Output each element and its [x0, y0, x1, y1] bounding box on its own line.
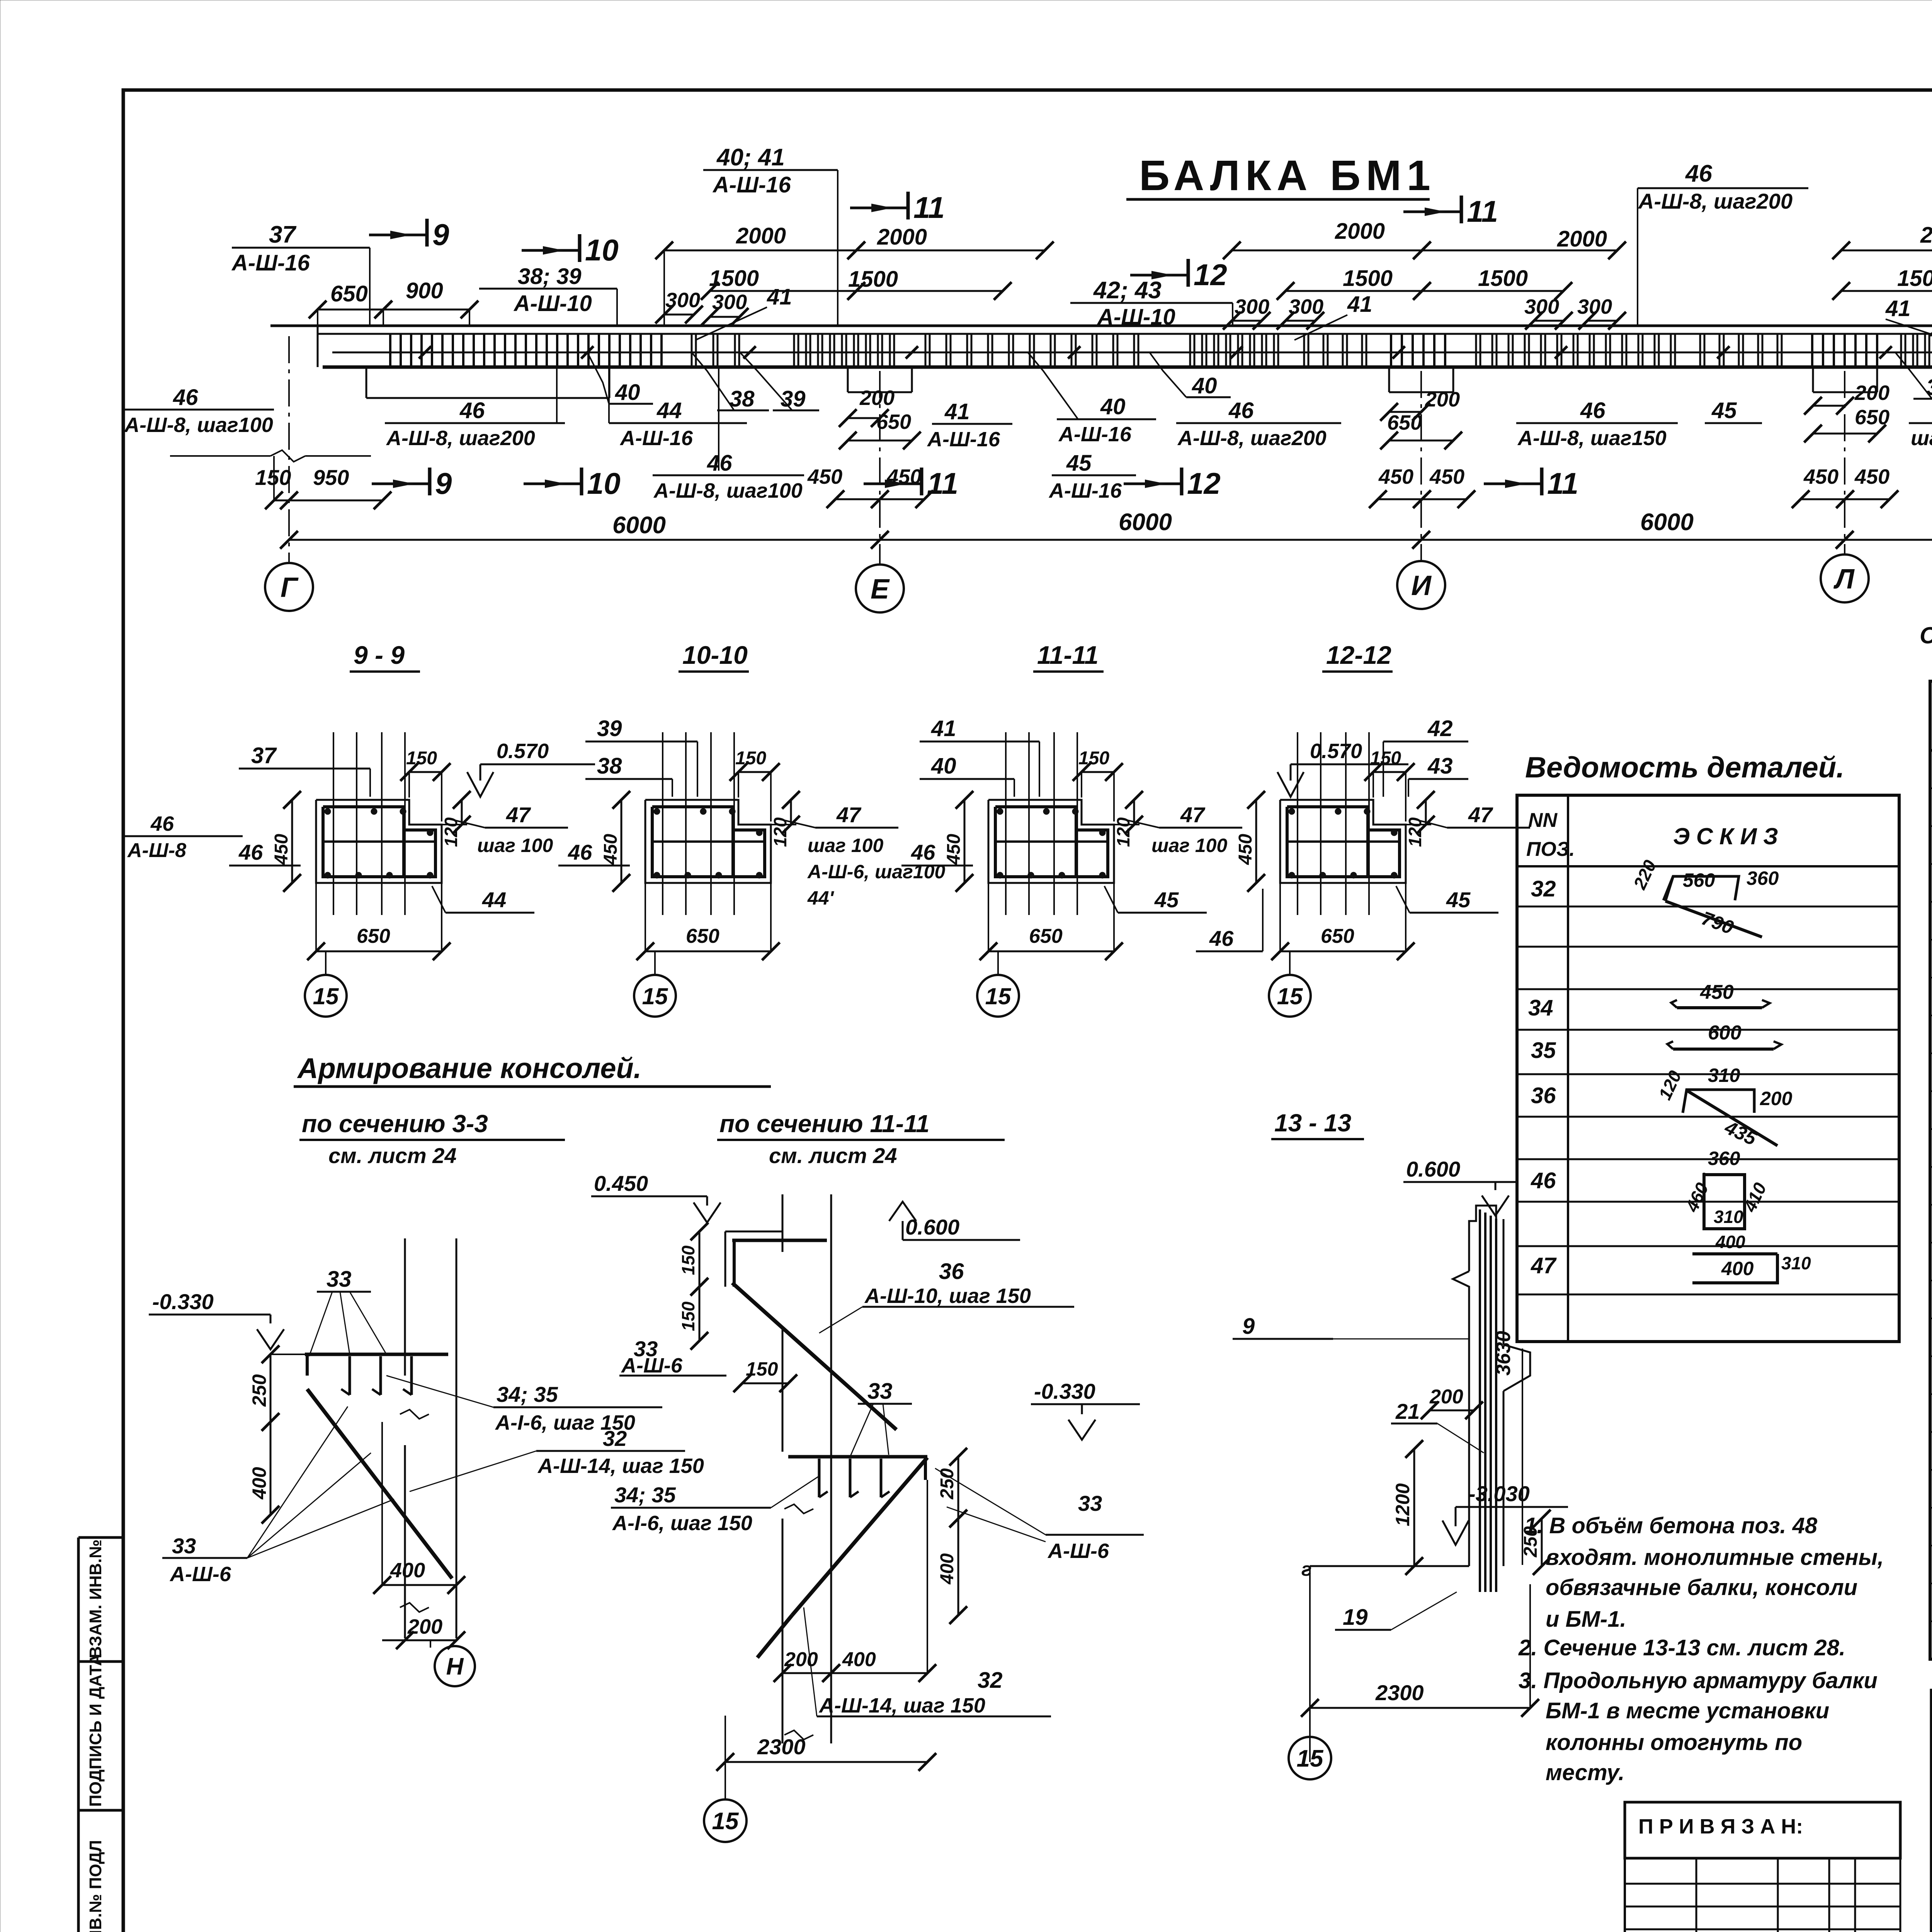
- svg-text:А-Ш-14, шаг 150: А-Ш-14, шаг 150: [818, 1694, 985, 1717]
- svg-text:1500: 1500: [1478, 266, 1528, 291]
- detail 13-13 dim 2300: [1310, 1707, 1530, 1709]
- svg-text:12: 12: [1194, 258, 1227, 292]
- svg-text:400: 400: [1715, 1232, 1745, 1252]
- svg-text:300: 300: [1289, 295, 1323, 318]
- svg-text:41: 41: [767, 284, 792, 310]
- svg-text:Н: Н: [446, 1653, 464, 1680]
- svg-text:Е: Е: [871, 574, 890, 605]
- svg-text:А-Ш-8, шаг200: А-Ш-8, шаг200: [1638, 189, 1793, 213]
- svg-text:150: 150: [406, 748, 437, 769]
- svg-text:47: 47: [836, 803, 862, 827]
- detail 11-11 upper diagonal bar: [732, 1283, 896, 1430]
- svg-text:46: 46: [1685, 160, 1712, 187]
- svg-text:колонны отогнуть по: колонны отогнуть по: [1546, 1730, 1802, 1755]
- svg-text:по сечению 3-3: по сечению 3-3: [302, 1110, 488, 1138]
- svg-text:150: 150: [678, 1245, 698, 1275]
- svg-text:41: 41: [1885, 296, 1911, 321]
- svg-text:650: 650: [357, 925, 390, 947]
- svg-text:19: 19: [1343, 1605, 1368, 1630]
- svg-text:1200: 1200: [1392, 1483, 1413, 1526]
- detail 3-3 axis circle N: [430, 1640, 431, 1648]
- section 12-12 wall bars passing through: [1297, 732, 1298, 915]
- svg-text:-3.030: -3.030: [1468, 1481, 1530, 1506]
- svg-text:А-Ш-6: А-Ш-6: [169, 1563, 231, 1586]
- beam left end edge: [317, 326, 319, 367]
- svg-text:450: 450: [600, 834, 621, 865]
- svg-text:46: 46: [568, 840, 592, 864]
- svg-text:46: 46: [707, 451, 732, 476]
- svg-text:10-10: 10-10: [682, 641, 748, 669]
- svg-text:400: 400: [1721, 1258, 1754, 1279]
- svg-text:2300: 2300: [757, 1735, 806, 1759]
- svg-text:А-Ш-16: А-Ш-16: [619, 427, 693, 450]
- svg-text:11-11: 11-11: [1037, 641, 1099, 669]
- svg-text:и БМ-1.: и БМ-1.: [1546, 1607, 1626, 1632]
- svg-text:46: 46: [459, 398, 485, 423]
- svg-text:200: 200: [1425, 388, 1460, 411]
- svg-text:6000: 6000: [1119, 509, 1172, 536]
- svg-text:А-Ш-6: А-Ш-6: [621, 1354, 683, 1377]
- svg-text:шаг 100: шаг 100: [477, 835, 553, 856]
- detail 3-3 dim 400 bottom: [382, 1584, 456, 1586]
- svg-text:47: 47: [1180, 803, 1206, 827]
- spec table frame: [1930, 681, 1932, 1659]
- detail 11-11 wall verticals: [782, 1194, 784, 1252]
- svg-text:45: 45: [1446, 888, 1471, 912]
- svg-text:Э С К И З: Э С К И З: [1673, 823, 1778, 849]
- section 10-10 dim 120 right rotated: [790, 800, 792, 825]
- svg-text:34; 35: 34; 35: [497, 1382, 558, 1406]
- svg-text:А-Ш-16: А-Ш-16: [231, 250, 310, 276]
- detail 11-11 lower diagonal bar: [792, 1458, 927, 1615]
- svg-text:450: 450: [1854, 465, 1889, 488]
- svg-text:450: 450: [1235, 834, 1256, 865]
- svg-text:450: 450: [271, 834, 292, 865]
- svg-text:см. лист 24: см. лист 24: [769, 1143, 897, 1168]
- svg-text:46: 46: [173, 385, 198, 410]
- svg-text:310: 310: [1714, 1207, 1743, 1227]
- svg-text:15: 15: [985, 983, 1012, 1009]
- svg-text:А-Ш-10: А-Ш-10: [1097, 304, 1175, 330]
- section mark 11 bottom-right: [1484, 483, 1542, 485]
- svg-text:450: 450: [1803, 465, 1838, 488]
- svg-text:15: 15: [1297, 1745, 1324, 1772]
- svg-text:0.570: 0.570: [497, 740, 549, 763]
- svg-text:250: 250: [937, 1468, 957, 1500]
- svg-text:40: 40: [615, 380, 640, 405]
- svg-text:месту.: месту.: [1546, 1760, 1624, 1785]
- svg-text:А-Ш-10, шаг 150: А-Ш-10, шаг 150: [864, 1284, 1031, 1308]
- svg-text:ИНВ.№ ПОДЛ: ИНВ.№ ПОДЛ: [86, 1840, 105, 1932]
- detail 3-3 dim 200 bottom: [382, 1639, 456, 1641]
- svg-text:38; 39: 38; 39: [518, 264, 581, 289]
- section 11-11 corner bar dots: [997, 808, 1003, 815]
- section 11-11 stirrup: [995, 807, 1076, 877]
- svg-text:650: 650: [330, 281, 368, 306]
- svg-text:40: 40: [1100, 394, 1126, 419]
- cross ticks on beam rebar line: [419, 346, 431, 359]
- section 9 - 9 corner bar dots: [325, 808, 331, 815]
- detail 11-11 dim 250 400 right: [957, 1457, 959, 1519]
- svg-text:Л: Л: [1833, 564, 1855, 595]
- stirrup ticks: [389, 335, 391, 366]
- svg-text:9 - 9: 9 - 9: [354, 641, 405, 669]
- detail 11-11 dim 150 horiz: [742, 1383, 788, 1384]
- svg-text:47: 47: [506, 803, 531, 827]
- svg-text:6000: 6000: [612, 512, 666, 539]
- svg-text:1500: 1500: [1897, 266, 1932, 291]
- svg-text:450: 450: [944, 834, 964, 865]
- section 12-12 dim 650 bottom: [1280, 951, 1406, 952]
- svg-text:1500: 1500: [709, 266, 759, 291]
- detail 3-3 diagonal bar: [307, 1389, 452, 1578]
- section 9 - 9 wall bars passing through: [333, 732, 334, 915]
- svg-text:47: 47: [1468, 803, 1493, 827]
- section 10-10 axis circle 15: [654, 951, 656, 975]
- section 12-12 axis circle 15: [1289, 951, 1291, 975]
- svg-text:47: 47: [1531, 1253, 1557, 1278]
- detail 11-11 lower corbel bar: [788, 1455, 927, 1459]
- svg-text:450: 450: [1700, 981, 1734, 1003]
- svg-text:0.450: 0.450: [594, 1171, 648, 1196]
- axis line G: [288, 336, 290, 563]
- privyazan box: [1625, 1802, 1900, 1858]
- section 11-11 dim 450 left rotated: [964, 800, 966, 883]
- svg-text:2000: 2000: [736, 223, 786, 248]
- svg-text:300: 300: [1235, 295, 1269, 318]
- svg-text:13 - 13: 13 - 13: [1274, 1109, 1351, 1137]
- detail 3-3 top bar with hooks: [305, 1353, 448, 1356]
- svg-text:П Р И В Я З А Н:: П Р И В Я З А Н:: [1638, 1815, 1803, 1838]
- detail 11-11 upper corbel bar: [732, 1239, 827, 1242]
- dim 2000 2000 left: [664, 250, 856, 252]
- svg-text:46: 46: [150, 812, 174, 835]
- detail 13-13 rebar bundle: [1479, 1209, 1481, 1592]
- axis line I: [1420, 371, 1422, 561]
- svg-text:11: 11: [1467, 194, 1498, 228]
- svg-text:650: 650: [1321, 925, 1354, 947]
- svg-text:А-Ш-10: А-Ш-10: [513, 291, 592, 316]
- detail 11-11 upper corbel outline: [725, 1231, 782, 1233]
- svg-text:400: 400: [842, 1648, 876, 1671]
- section 10-10 wall bars passing through: [662, 732, 663, 915]
- detail 3-3 wall verticals: [404, 1238, 406, 1376]
- section 10-10 stirrup: [652, 807, 733, 877]
- svg-text:2. Сечение 13-13 см. лист 28.: 2. Сечение 13-13 см. лист 28.: [1518, 1635, 1845, 1660]
- svg-text:300: 300: [1577, 295, 1612, 318]
- svg-text:12-12: 12-12: [1326, 641, 1391, 669]
- svg-text:200: 200: [407, 1615, 442, 1638]
- svg-text:33: 33: [1078, 1491, 1102, 1515]
- svg-text:400: 400: [390, 1559, 425, 1582]
- svg-text:БМ-1 в месте установки: БМ-1 в месте установки: [1546, 1698, 1829, 1723]
- section 10-10 concrete outline: [645, 800, 771, 883]
- svg-text:400: 400: [937, 1553, 957, 1585]
- svg-text:Ведомость деталей.: Ведомость деталей.: [1525, 751, 1844, 784]
- svg-text:42; 43: 42; 43: [1093, 277, 1162, 304]
- svg-text:310: 310: [1781, 1253, 1811, 1273]
- detail 11-11 axis circle 15: [724, 1762, 726, 1799]
- svg-text:950: 950: [313, 465, 349, 490]
- svg-text:2000: 2000: [1335, 219, 1385, 244]
- section mark 9 top-left: [369, 234, 427, 236]
- svg-text:300: 300: [1524, 295, 1559, 318]
- span dim 6000 x4: [289, 539, 880, 541]
- svg-text:650: 650: [1029, 925, 1063, 947]
- svg-text:Г: Г: [281, 572, 299, 603]
- svg-text:46: 46: [1531, 1168, 1556, 1193]
- svg-text:400: 400: [248, 1467, 270, 1500]
- svg-text:650: 650: [876, 410, 911, 434]
- section 9 - 9 dim 450 left rotated: [291, 800, 293, 883]
- svg-text:11: 11: [913, 190, 945, 224]
- section mark 11 bottom: [864, 483, 922, 485]
- svg-text:360: 360: [1708, 1148, 1740, 1169]
- vedomost row lines: [1517, 906, 1899, 908]
- svg-text:см. лист 24: см. лист 24: [328, 1143, 457, 1168]
- svg-text:А-Ш-8: А-Ш-8: [127, 839, 186, 862]
- svg-text:6000: 6000: [1640, 509, 1694, 536]
- svg-text:9: 9: [435, 466, 452, 500]
- section mark 12 bottom: [1124, 483, 1182, 485]
- svg-text:10: 10: [587, 466, 621, 500]
- detail 13-13 wall outline: [1469, 1206, 1496, 1271]
- svg-text:21: 21: [1395, 1399, 1420, 1423]
- svg-text:по сечению 11-11: по сечению 11-11: [719, 1110, 930, 1138]
- svg-text:650: 650: [686, 925, 719, 947]
- detail 13-13 dim 250 right: [1541, 1519, 1543, 1566]
- svg-text:35: 35: [1531, 1038, 1556, 1063]
- svg-text:450: 450: [886, 465, 922, 488]
- svg-text:шаг 100: шаг 100: [1151, 835, 1227, 856]
- svg-text:650: 650: [1387, 411, 1422, 434]
- svg-text:9: 9: [432, 218, 449, 252]
- detail 13-13 ground line: [1310, 1565, 1469, 1567]
- svg-text:43: 43: [1427, 753, 1453, 779]
- svg-text:А-Ш-16: А-Ш-16: [1048, 479, 1122, 502]
- section 12-12 dim 120 right rotated: [1425, 800, 1427, 825]
- svg-text:шаг 100: шаг 100: [1911, 427, 1932, 450]
- section 12-12 concrete outline: [1280, 800, 1406, 883]
- svg-text:NN: NN: [1528, 809, 1558, 832]
- svg-text:1500: 1500: [1343, 266, 1393, 291]
- svg-text:0.570: 0.570: [1310, 740, 1362, 763]
- dim 2000 right: [1841, 250, 1932, 252]
- svg-text:150: 150: [746, 1358, 778, 1380]
- svg-text:44: 44: [656, 398, 682, 423]
- section 11-11 dim 150 top: [1082, 771, 1114, 773]
- section 10-10 dim 650 bottom: [645, 951, 771, 952]
- dim 300 300 left with label 41: [664, 314, 694, 316]
- svg-text:А-Ш-16: А-Ш-16: [1058, 423, 1132, 446]
- section 12-12 dim 150 top: [1373, 771, 1406, 773]
- svg-text:36: 36: [1531, 1083, 1556, 1108]
- beam bottom rebar line: [332, 352, 1932, 354]
- axis line L: [1844, 371, 1845, 554]
- svg-text:ПОДПИСЬ И ДАТА: ПОДПИСЬ И ДАТА: [86, 1654, 105, 1807]
- svg-text:А-Ш-8, шаг200: А-Ш-8, шаг200: [1177, 427, 1327, 450]
- svg-text:3. Продольную арматуру балки: 3. Продольную арматуру балки: [1519, 1668, 1878, 1693]
- section 9 - 9 concrete outline: [316, 800, 442, 883]
- svg-text:300: 300: [665, 289, 700, 312]
- svg-text:1. В объём бетона поз. 48: 1. В объём бетона поз. 48: [1524, 1513, 1818, 1538]
- svg-text:г: г: [1301, 1558, 1312, 1580]
- svg-text:обвязачные балки, консоли: обвязачные балки, консоли: [1546, 1575, 1857, 1600]
- dim 1500 right: [1841, 290, 1932, 292]
- detail 11-11 dims 150 150 rotated: [699, 1231, 701, 1287]
- svg-text:11: 11: [927, 466, 958, 500]
- svg-text:37: 37: [269, 221, 296, 248]
- svg-text:40: 40: [1192, 373, 1217, 398]
- svg-text:46: 46: [1228, 398, 1254, 423]
- section 12-12 dim 450 left rotated: [1255, 800, 1257, 883]
- svg-text:42: 42: [1427, 716, 1453, 741]
- detail 3-3 dim 250 400: [270, 1354, 272, 1422]
- axis line E: [879, 371, 881, 565]
- svg-text:шаг 100: шаг 100: [808, 835, 883, 856]
- svg-text:15: 15: [642, 983, 668, 1009]
- svg-text:46: 46: [1580, 398, 1605, 423]
- svg-text:450: 450: [1378, 465, 1413, 488]
- svg-text:200: 200: [1429, 1386, 1463, 1408]
- svg-text:А-I-6, шаг 150: А-I-6, шаг 150: [612, 1512, 752, 1535]
- axis circle I: [1397, 561, 1445, 609]
- svg-text:150: 150: [1370, 748, 1401, 769]
- section 9 - 9 dim 150 top: [409, 771, 442, 773]
- detail 11-11 break marks: [784, 1504, 813, 1514]
- detail 13-13 dim 1200: [1413, 1449, 1415, 1566]
- svg-text:15: 15: [313, 983, 339, 1009]
- svg-text:46: 46: [911, 840, 935, 864]
- svg-text:900: 900: [406, 278, 443, 303]
- section mark 11 top: [850, 207, 908, 209]
- titleblock signature grid: [1932, 1714, 1932, 1715]
- svg-text:1500: 1500: [848, 267, 898, 292]
- svg-text:150: 150: [1078, 748, 1109, 769]
- svg-text:БАЛКА БМ1: БАЛКА БМ1: [1139, 152, 1436, 199]
- section 11-11 axis circle 15: [997, 951, 999, 975]
- svg-text:А-Ш-8, шаг100: А-Ш-8, шаг100: [124, 413, 273, 437]
- section 9 - 9 dim 120 right rotated: [461, 800, 463, 825]
- svg-text:41: 41: [931, 716, 956, 741]
- svg-text:И: И: [1411, 570, 1432, 601]
- svg-text:45: 45: [1154, 888, 1179, 912]
- section mark 10 bottom-left: [524, 483, 582, 485]
- svg-text:2300: 2300: [1375, 1680, 1424, 1705]
- detail 13-13 axis circle 15: [1309, 1708, 1311, 1736]
- svg-text:360: 360: [1747, 867, 1779, 889]
- detail 11-11 dim 2300 bottom: [725, 1761, 927, 1763]
- svg-text:входят. монолитные стены,: входят. монолитные стены,: [1546, 1545, 1884, 1570]
- section 10-10 dim 150 top: [738, 771, 771, 773]
- svg-text:450: 450: [807, 465, 842, 488]
- svg-text:ПОЗ.: ПОЗ.: [1526, 838, 1575, 861]
- svg-text:33: 33: [327, 1267, 352, 1292]
- section mark 11 top-right: [1403, 211, 1461, 213]
- svg-text:150: 150: [735, 748, 766, 769]
- dim 1500 1500 middle: [1286, 290, 1422, 292]
- svg-text:300: 300: [712, 291, 747, 314]
- section mark 10 top-left: [522, 249, 580, 252]
- small table below privyazan: [1625, 1883, 1900, 1885]
- svg-text:41: 41: [944, 399, 970, 424]
- console under beam at axis L: [1812, 367, 1814, 392]
- spec table header: [1930, 749, 1932, 752]
- left stamp strip: [77, 1537, 80, 1932]
- svg-text:33: 33: [172, 1534, 196, 1558]
- svg-text:44: 44: [482, 888, 506, 912]
- svg-text:10: 10: [585, 233, 619, 267]
- svg-text:2000: 2000: [877, 224, 927, 250]
- svg-text:А-Ш-16: А-Ш-16: [712, 172, 791, 197]
- section 11-11 dim 650 bottom: [988, 951, 1114, 952]
- svg-text:37: 37: [251, 743, 277, 768]
- dims 300 middle with label 41: [1232, 320, 1262, 322]
- svg-text:34: 34: [1528, 995, 1553, 1020]
- svg-text:200: 200: [1854, 381, 1889, 405]
- svg-text:38: 38: [597, 753, 622, 779]
- svg-text:200: 200: [859, 386, 895, 410]
- section mark 12 top: [1130, 274, 1188, 277]
- dim 2000 2000 middle: [1232, 250, 1422, 252]
- left end dim chain break line: [170, 455, 270, 457]
- svg-text:39: 39: [781, 386, 806, 412]
- svg-text:9: 9: [1242, 1314, 1255, 1339]
- section 10-10 dim 450 left rotated: [621, 800, 622, 883]
- section 11-11 wall bars passing through: [1005, 732, 1007, 915]
- section mark 9 bottom-left: [372, 483, 430, 485]
- dim 650 900: [318, 309, 383, 311]
- svg-text:560: 560: [1683, 869, 1715, 891]
- svg-text:А-Ш-6: А-Ш-6: [1047, 1539, 1109, 1563]
- svg-text:32: 32: [603, 1426, 627, 1451]
- svg-text:310: 310: [1708, 1065, 1740, 1086]
- svg-text:46: 46: [238, 840, 263, 864]
- section 9 - 9 axis circle 15: [325, 951, 327, 975]
- svg-text:А-Ш-14, шаг 150: А-Ш-14, шаг 150: [537, 1454, 704, 1478]
- svg-text:А-Ш-16: А-Ш-16: [927, 428, 1000, 451]
- svg-text:200: 200: [1760, 1088, 1793, 1109]
- svg-text:39: 39: [597, 716, 622, 741]
- svg-text:-0.330: -0.330: [1034, 1379, 1095, 1403]
- section 11-11 concrete outline: [988, 800, 1114, 883]
- svg-text:150: 150: [678, 1301, 698, 1331]
- detail 3-3 break marks: [400, 1410, 429, 1419]
- svg-text:Армирование консолей.: Армирование консолей.: [297, 1052, 641, 1084]
- console under beam at axis I: [1388, 367, 1390, 392]
- svg-text:2000: 2000: [1557, 226, 1607, 252]
- svg-text:40: 40: [931, 753, 956, 779]
- svg-text:12: 12: [1187, 466, 1221, 500]
- svg-text:-0.330: -0.330: [152, 1289, 214, 1314]
- svg-text:200: 200: [784, 1648, 818, 1671]
- titleblock outer box: [1932, 1690, 1932, 1932]
- svg-text:3630: 3630: [1492, 1331, 1515, 1376]
- svg-text:41: 41: [1347, 292, 1372, 317]
- svg-text:46: 46: [1209, 926, 1234, 951]
- svg-text:А-Ш-8, шаг100: А-Ш-8, шаг100: [653, 479, 803, 502]
- section 9 - 9 stirrup: [323, 807, 404, 877]
- svg-text:11: 11: [1547, 466, 1578, 500]
- beam top chord line: [270, 325, 1932, 327]
- svg-text:450: 450: [1429, 465, 1464, 488]
- svg-text:2000: 2000: [1920, 223, 1932, 248]
- svg-text:44': 44': [807, 887, 835, 909]
- svg-text:А-Ш-8, шаг200: А-Ш-8, шаг200: [386, 427, 535, 450]
- svg-text:15: 15: [712, 1808, 739, 1835]
- svg-text:15: 15: [1277, 983, 1303, 1009]
- section 9 - 9 dim 650 bottom: [316, 951, 442, 952]
